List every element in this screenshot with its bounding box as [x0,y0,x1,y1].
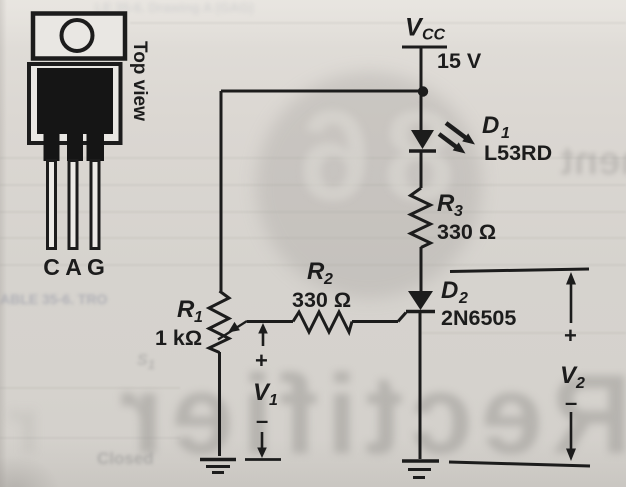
svg-text:+: + [255,348,268,373]
svg-text:–: – [565,390,577,415]
svg-text:L53RD: L53RD [484,141,552,165]
svg-text:330 Ω: 330 Ω [292,288,351,312]
svg-text:+: + [564,323,577,348]
svg-text:1: 1 [194,309,203,326]
svg-text:2: 2 [458,290,468,307]
svg-text:2N6505: 2N6505 [441,306,516,330]
svg-text:1: 1 [269,392,278,409]
svg-text:1 kΩ: 1 kΩ [155,326,202,350]
svg-text:C: C [43,254,60,280]
svg-text:15 V: 15 V [437,49,482,73]
svg-text:R: R [307,258,325,285]
svg-text:1: 1 [501,125,510,142]
svg-text:G: G [87,254,105,280]
svg-text:R: R [437,190,455,217]
svg-text:Top view: Top view [129,41,150,121]
svg-text:3: 3 [454,203,463,220]
svg-text:CC: CC [422,27,446,44]
svg-text:D: D [482,112,499,139]
svg-text:D: D [441,277,458,304]
svg-text:A: A [65,254,82,280]
svg-text:2: 2 [323,271,333,288]
svg-text:R: R [177,296,195,323]
svg-text:–: – [256,408,268,433]
svg-text:330 Ω: 330 Ω [437,220,496,244]
